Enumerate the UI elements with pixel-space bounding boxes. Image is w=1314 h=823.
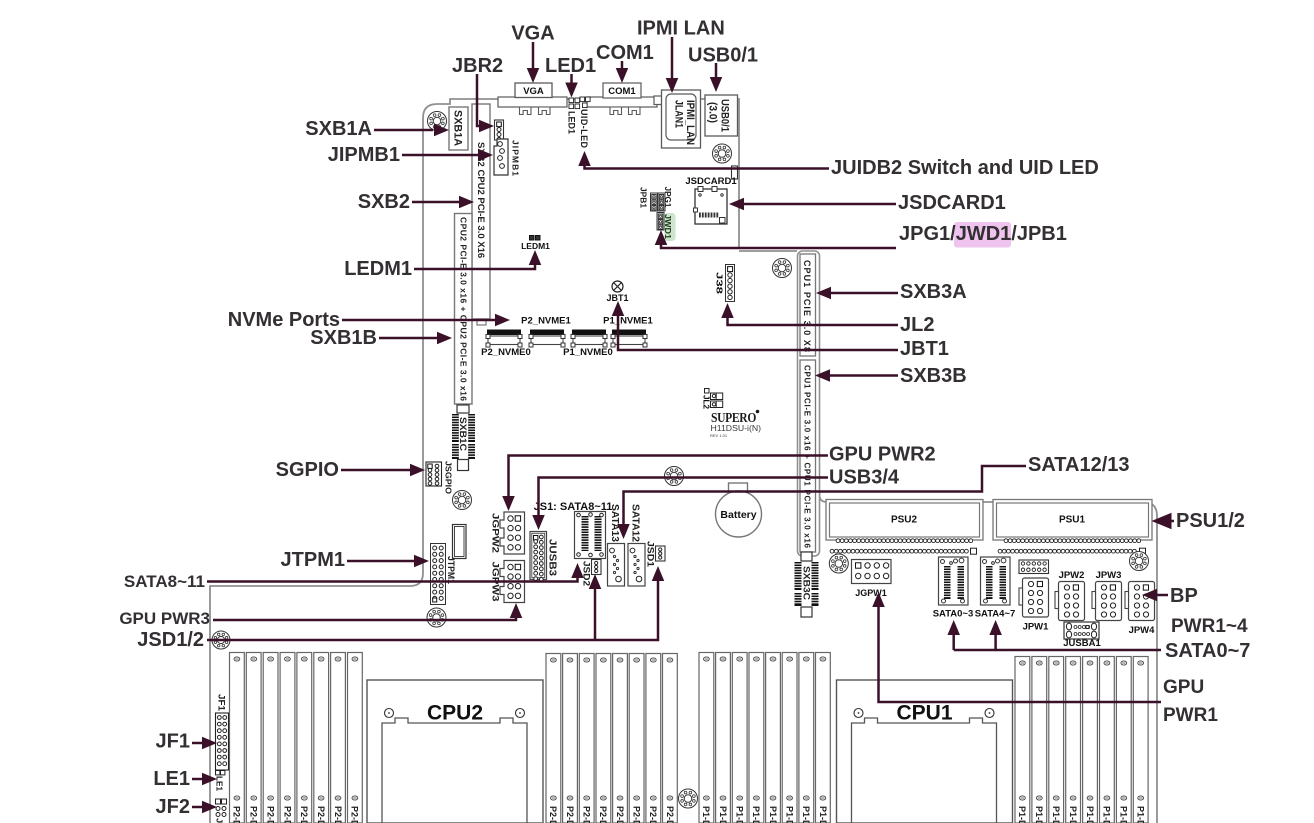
wire SXB1A callout: [374, 129, 433, 132]
svg-text:SXB1A: SXB1A: [452, 110, 464, 146]
svg-text:P1-D: P1-D: [718, 806, 728, 823]
jumper JWD1 highlighted: [664, 213, 675, 241]
svg-text:P1-D: P1-D: [1051, 806, 1061, 823]
connector JPW3: [1096, 582, 1122, 621]
connector JGPW1: [852, 560, 892, 584]
battery-clear jumper JBT1: [612, 281, 623, 292]
svg-text:LE1: LE1: [215, 776, 225, 791]
svg-text:JL2: JL2: [900, 314, 934, 336]
svg-text:SATA0~7: SATA0~7: [1165, 640, 1250, 662]
header on right edge: [732, 166, 738, 179]
svg-text:P1-D: P1-D: [751, 806, 761, 823]
svg-text:GPU PWR3: GPU PWR3: [119, 609, 210, 628]
svg-text:COM1: COM1: [608, 86, 636, 97]
connector SXB3C: [801, 552, 812, 561]
wire board outline mid step: [739, 250, 797, 252]
wire JTPM1 callout: [347, 560, 416, 563]
svg-text:JTPM1: JTPM1: [281, 549, 345, 571]
connector PSU2: [826, 500, 983, 541]
svg-text:JSD2: JSD2: [582, 561, 592, 586]
svg-text:CPU1: CPU1: [896, 702, 952, 725]
wire PSU1/2 callout: [1170, 520, 1174, 523]
svg-text:P1-D: P1-D: [768, 806, 778, 823]
svg-text:JPW2: JPW2: [1059, 570, 1085, 581]
svg-text:P1-D: P1-D: [1119, 806, 1129, 823]
connector SATA0~3: [939, 557, 969, 605]
wire JL2 callout: [728, 316, 899, 325]
connector JLAN1 IPMI_LAN: [654, 96, 662, 105]
slot SXB2 CPU2 PCI-E 3.0 X16: [472, 104, 490, 319]
svg-text:VGA: VGA: [523, 86, 544, 97]
LED LEDM1: [530, 236, 535, 241]
screw hole in DIMM gap: [679, 789, 698, 808]
svg-text:PSU2: PSU2: [891, 515, 918, 526]
svg-text:JSDCARD1: JSDCARD1: [898, 192, 1006, 214]
svg-text:P2-D: P2-D: [299, 806, 309, 823]
svg-text:JGPW1: JGPW1: [855, 588, 887, 598]
wire VGA callout: [532, 42, 535, 70]
screw hole left low: [427, 608, 446, 627]
slot SXB1A: [449, 107, 468, 150]
header JTPM1: [431, 544, 446, 605]
wire GPU PWR1 callout: [879, 606, 1162, 702]
header JF2: [216, 799, 221, 804]
svg-text:JIPMB1: JIPMB1: [511, 140, 521, 176]
svg-text:P1-D: P1-D: [801, 806, 811, 823]
svg-text:JPG1: JPG1: [663, 187, 672, 209]
svg-text:P2-D: P2-D: [333, 806, 343, 823]
header JSGPIO: [426, 462, 442, 486]
wire board outline left/top: [210, 99, 739, 823]
battery: [729, 483, 748, 493]
svg-text:SXB3C: SXB3C: [802, 566, 812, 601]
header JSD1: [656, 546, 666, 561]
screw hole top-left: [428, 112, 447, 131]
jumper JPB1: [651, 193, 658, 211]
svg-text:P2_NVME0: P2_NVME0: [481, 347, 531, 358]
svg-text:P2-D: P2-D: [350, 806, 360, 823]
wire IPMI LAN callout: [671, 37, 674, 80]
DIMM slots P1 left bank: [699, 653, 830, 823]
wire JF1 callout: [192, 742, 204, 745]
CPU2 socket: [367, 680, 543, 823]
svg-text:SATA12: SATA12: [630, 504, 641, 542]
slot SXB3A/CPU1 PCIE 3.0 X8: [800, 254, 816, 356]
wire GPU PWR2 callout: [509, 456, 829, 499]
connector COM1: [603, 83, 641, 98]
svg-text:JBR2: JBR2: [452, 55, 503, 77]
connector PSU1: [993, 500, 1152, 541]
svg-text:(3.0): (3.0): [707, 102, 719, 123]
LED LED1: [569, 98, 574, 103]
svg-text:JBT1: JBT1: [900, 338, 949, 360]
DIMM slots P2 left bank: [230, 653, 363, 823]
svg-text:PSU1/2: PSU1/2: [1176, 510, 1245, 532]
svg-text:VGA: VGA: [511, 23, 554, 45]
svg-text:LED1: LED1: [545, 55, 596, 77]
LED UID-LED: [580, 97, 585, 102]
svg-text:CPU2 PCI-E 3.0 x16 + CPU2 PCI-: CPU2 PCI-E 3.0 x16 + CPU2 PCI-E 3.0 x16: [459, 217, 469, 401]
svg-text:P1-D: P1-D: [735, 806, 745, 823]
wire SXB3A callout: [829, 292, 898, 295]
CPU1 socket: [837, 680, 1013, 823]
wire LEDM1 callout: [414, 262, 535, 269]
svg-text:JUSBA1: JUSBA1: [1063, 638, 1101, 649]
connector JPW2: [1059, 582, 1085, 621]
svg-text:P1-D: P1-D: [1085, 806, 1095, 823]
wire SXB1B callout: [379, 337, 438, 340]
svg-text:P1-D: P1-D: [818, 806, 828, 823]
svg-text:P1_NVME0: P1_NVME0: [563, 347, 613, 358]
wire SXB3B callout: [828, 374, 898, 377]
connector JPW4: [1129, 582, 1155, 621]
wire SXB2 callout: [412, 201, 460, 204]
wire JSDCARD1 callout: [742, 203, 896, 206]
svg-text:SXB1C: SXB1C: [458, 417, 468, 452]
svg-text:Battery: Battery: [720, 509, 756, 521]
slot SXB3B CPU1 PCI-E 3.0 x16: [800, 360, 816, 552]
svg-text:JF1: JF1: [217, 694, 227, 711]
svg-text:SATA12/13: SATA12/13: [1028, 454, 1130, 476]
svg-text:P2-D: P2-D: [665, 806, 675, 823]
jumper JPG1: [658, 193, 665, 211]
svg-text:JPB1: JPB1: [639, 187, 648, 209]
svg-text:P2-D: P2-D: [232, 806, 242, 823]
wire JBT1 callout: [618, 314, 898, 350]
svg-text:P1-D: P1-D: [1102, 806, 1112, 823]
svg-text:IPMI_LAN: IPMI_LAN: [684, 100, 696, 145]
svg-text:JSD1/2: JSD1/2: [137, 629, 204, 651]
svg-text:SATA13: SATA13: [609, 504, 620, 542]
connector VGA: [515, 83, 552, 98]
svg-text:JLAN1: JLAN1: [673, 100, 685, 128]
svg-text:GPU PWR2: GPU PWR2: [829, 444, 936, 466]
screw hole right of J38: [773, 259, 792, 278]
PSU1 pin rows: [998, 539, 1145, 554]
header above JPW1: [1019, 560, 1049, 574]
slot SXB3 outer outline: [798, 251, 820, 556]
svg-text:SATA4~7: SATA4~7: [975, 609, 1016, 620]
wire JPG1/JWD1/JPB1 callout: [661, 244, 896, 248]
svg-text:P1_NVME1: P1_NVME1: [603, 316, 653, 327]
screw hole near JSDCARD1: [713, 144, 732, 163]
header JIPMB1: [494, 139, 508, 175]
svg-text:P2-D: P2-D: [582, 806, 592, 823]
svg-text:P2-D: P2-D: [265, 806, 275, 823]
svg-text:P1-D: P1-D: [1017, 806, 1027, 823]
svg-text:USB3/4: USB3/4: [829, 467, 900, 489]
svg-text:J38: J38: [715, 272, 725, 294]
svg-text:BP: BP: [1170, 585, 1198, 607]
svg-text:JF1: JF1: [156, 731, 190, 753]
wire SATA8~11 callout: [207, 576, 578, 582]
PSU2 pin rows: [830, 539, 976, 554]
svg-text:SXB3A: SXB3A: [900, 281, 967, 303]
screw hole left mid: [453, 491, 472, 510]
wire JUIDB2 callout: [585, 164, 830, 169]
svg-text:USB0/1: USB0/1: [688, 45, 758, 67]
wire JIPMB1 callout: [402, 154, 480, 157]
component small box: [453, 525, 467, 559]
svg-text:P2-D: P2-D: [565, 806, 575, 823]
header JUSB3: [530, 532, 547, 580]
connector SXB1C: [457, 405, 469, 413]
screw hole mid: [665, 467, 684, 486]
svg-text:SGPIO: SGPIO: [276, 459, 339, 481]
connector JPW1: [1023, 578, 1049, 617]
svg-text:P1-D: P1-D: [1136, 806, 1146, 823]
svg-text:JGPW2: JGPW2: [491, 513, 501, 553]
connector SATA12: [628, 544, 645, 587]
wire JSD1/2 callout: [207, 579, 658, 640]
wire SGPIO callout: [341, 469, 412, 472]
connector P2_NVME1 group: [486, 330, 522, 348]
screw hole bottom left on JSD line: [212, 631, 230, 649]
svg-text:JIPMB1: JIPMB1: [328, 144, 400, 166]
slot SXB1B CPU2 PCI-E 3.0 x16: [455, 214, 473, 405]
LED LE1: [216, 771, 220, 775]
svg-text:JUSB3: JUSB3: [547, 539, 558, 576]
svg-text:JTPM1: JTPM1: [446, 556, 456, 584]
svg-text:JPW1: JPW1: [1023, 622, 1050, 633]
svg-text:P2-D: P2-D: [316, 806, 326, 823]
svg-text:LED1: LED1: [567, 111, 577, 134]
svg-text:PWR1~4: PWR1~4: [1171, 616, 1248, 637]
wire COM1 callout: [621, 61, 624, 70]
svg-text:P2-D: P2-D: [648, 806, 658, 823]
wire BP callout: [1155, 594, 1168, 597]
connector USB0/1: [705, 95, 738, 136]
svg-text:CPU2: CPU2: [427, 702, 483, 725]
wire board outline right section: [820, 492, 1158, 823]
svg-text:JSGPIO: JSGPIO: [444, 461, 454, 494]
connector JSDCARD1: [695, 189, 727, 224]
wire USB3/4 callout: [539, 478, 829, 518]
svg-text:SATA8~11: SATA8~11: [124, 572, 205, 591]
svg-text:P2-D: P2-D: [615, 806, 625, 823]
DIMM slots P2 right bank: [546, 654, 677, 823]
svg-text:USB0/1: USB0/1: [719, 99, 731, 132]
svg-text:SATA0~3: SATA0~3: [933, 609, 974, 620]
header JSD2: [592, 560, 602, 575]
svg-text:UID-LED: UID-LED: [579, 109, 589, 149]
svg-text:P2-D: P2-D: [598, 806, 608, 823]
wire LE1 callout: [192, 778, 204, 781]
wire SATA0~7 callout: [954, 649, 1161, 652]
label JPG1/JWD1/JPB1: [954, 222, 1011, 248]
svg-text:CPU1 PCIE 3.0 X8: CPU1 PCIE 3.0 X8: [802, 260, 812, 352]
svg-text:LEDM1: LEDM1: [521, 241, 550, 251]
svg-text:SXB3B: SXB3B: [900, 365, 967, 387]
svg-text:P2-D: P2-D: [282, 806, 292, 823]
wire USB0/1 callout: [715, 63, 718, 79]
svg-text:P2-D: P2-D: [631, 806, 641, 823]
connector SATA4~7: [981, 557, 1011, 605]
screw hole PSU right: [1130, 552, 1149, 571]
svg-text:GPU: GPU: [1163, 677, 1204, 698]
svg-text:P1-D: P1-D: [1034, 806, 1044, 823]
svg-text:SXB2: SXB2: [358, 191, 410, 213]
svg-text:P1-D: P1-D: [1068, 806, 1078, 823]
svg-text:SXB1B: SXB1B: [310, 327, 377, 349]
svg-text:CPU1 PCI-E 3.0 x16 + CPU1 PCI-: CPU1 PCI-E 3.0 x16 + CPU1 PCI-E 3.0 x16: [803, 365, 812, 549]
wire LED1 callout: [570, 74, 573, 84]
wire JBR2 callout: [477, 74, 482, 126]
svg-text:JF: JF: [215, 818, 225, 823]
svg-text:JSDCARD1: JSDCARD1: [685, 176, 737, 187]
DIMM slots P1 right bank: [1015, 657, 1148, 823]
connector COM1 bracket: [587, 97, 657, 107]
svg-text:REV 1.01: REV 1.01: [710, 433, 728, 438]
svg-text:JWD1: JWD1: [663, 214, 672, 240]
svg-text:LEDM1: LEDM1: [344, 258, 412, 280]
svg-text:JF2: JF2: [156, 796, 190, 818]
svg-text:JPW4: JPW4: [1129, 625, 1156, 636]
svg-text:LE1: LE1: [153, 768, 190, 790]
svg-text:IPMI LAN: IPMI LAN: [637, 18, 725, 40]
svg-text:JPW3: JPW3: [1096, 570, 1122, 581]
connector JGPW2: [500, 512, 525, 554]
wire SATA12/13 callout: [624, 466, 1027, 526]
svg-text:COM1: COM1: [596, 42, 654, 64]
screw hole PSU left: [829, 554, 848, 573]
svg-text:PWR1: PWR1: [1163, 705, 1218, 726]
svg-text:JUIDB2 Switch and UID LED: JUIDB2 Switch and UID LED: [831, 157, 1099, 179]
svg-text:JPG1/JWD1/JPB1: JPG1/JWD1/JPB1: [899, 223, 1067, 245]
header JUSBA1: [1064, 622, 1099, 639]
svg-text:PSU1: PSU1: [1059, 515, 1086, 526]
svg-text:P2-D: P2-D: [249, 806, 259, 823]
wire GPU PWR3 callout: [213, 616, 516, 620]
wire JF2 callout: [192, 806, 204, 809]
svg-text:P2_NVME1: P2_NVME1: [521, 316, 571, 327]
connector JGPW3: [500, 561, 525, 603]
svg-text:JBT1: JBT1: [606, 293, 628, 303]
wire NVMe Ports callout: [342, 319, 497, 322]
svg-text:SXB1A: SXB1A: [305, 118, 372, 140]
svg-text:P1-D: P1-D: [784, 806, 794, 823]
header J38: [726, 265, 735, 302]
connector VGA bracket: [498, 97, 567, 107]
svg-text:JSD1: JSD1: [646, 541, 656, 567]
header JBR2: [495, 120, 504, 140]
svg-text:P2-D: P2-D: [548, 806, 558, 823]
svg-text:P1-D: P1-D: [701, 806, 711, 823]
svg-text:H11DSU-i(N): H11DSU-i(N): [711, 423, 762, 433]
connector SATA13: [608, 544, 625, 587]
